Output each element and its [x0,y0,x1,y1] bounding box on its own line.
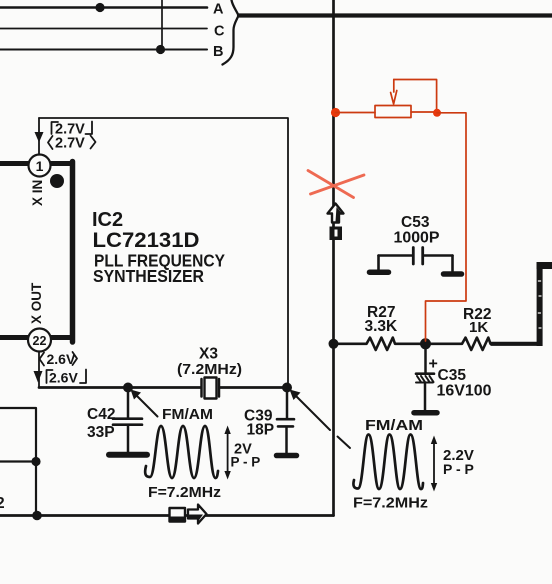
svg-text:2.7V: 2.7V [55,136,85,152]
svg-text:C53: C53 [401,214,430,231]
wiper bracket [394,80,437,113]
off-page connector right arrow [188,505,207,524]
orange node right [433,109,441,117]
capacitor C42 [127,388,130,419]
pin 22 circle [28,329,51,352]
svg-text:SYNTHESIZER: SYNTHESIZER [93,266,204,286]
p-p arrow 1 [227,432,229,473]
svg-text:1: 1 [36,158,44,174]
cable brace [223,0,239,65]
label [2.6V] [47,370,87,384]
svg-text:P - P: P - P [443,461,474,477]
svg-text:33P: 33P [87,424,115,441]
svg-text:A: A [213,2,224,18]
svg-text:B: B [213,44,223,60]
waveform 1 [145,426,218,478]
potentiometer left lead [336,112,376,114]
wiper arrow [391,80,397,105]
wire B [0,48,207,50]
crystal wire [39,386,287,389]
IC2 body edge [70,162,76,343]
pin 22 arrow [34,371,43,383]
bottom bus wire [0,514,334,517]
capacitor C53 [379,254,453,257]
svg-text:X IN: X IN [30,180,45,206]
node on wire A [95,3,104,12]
svg-text:2.6V: 2.6V [49,370,78,386]
annotation arrow to C39 node [295,395,350,448]
orange overlay [331,80,466,342]
pin 22 stub wires [0,335,72,340]
svg-text:F=7.2MHz: F=7.2MHz [148,485,221,501]
svg-text:2: 2 [0,495,5,512]
wire C [0,28,207,30]
node C42 [123,383,133,393]
svg-text:LC72131D: LC72131D [93,229,200,252]
svg-text:22: 22 [33,334,47,348]
node C39 [282,383,292,393]
capacitor C35 [424,344,427,373]
label [2.7V] [52,122,93,135]
internal dot [50,174,64,188]
wire into block [0,460,36,462]
bottom-left block edge [0,408,36,516]
thick bus wire top [239,13,552,17]
off-page connector box [330,227,343,241]
crystal X3 [202,379,220,397]
thick right-edge wire [537,262,552,269]
orange node left [331,108,340,117]
svg-text:C35: C35 [438,367,467,384]
node on wire B [156,45,165,54]
svg-text:1000P: 1000P [394,230,440,247]
p-p arrow 2 [433,442,435,486]
capacitor C39 [286,388,289,419]
resistor R27 [334,338,422,350]
potentiometer right lead [411,111,437,113]
wire vertical to node B [161,0,163,50]
annotation arrow to C42 node [136,395,158,417]
svg-text:FM/AM: FM/AM [162,407,213,423]
node R27/R22/C35 [420,338,431,349]
svg-text:X3: X3 [199,346,218,363]
svg-text:+: + [429,356,438,373]
potentiometer VR body [375,106,411,118]
svg-text:X OUT: X OUT [29,282,44,324]
pin 1 stub wires [0,161,72,166]
svg-text:16V100: 16V100 [437,383,492,400]
waveform 2 [353,435,423,490]
node bottom bus [32,511,42,521]
orange feed wire [426,113,467,341]
X IN wire loop (top and right of IC box) [39,118,288,388]
label <2.6V> [40,352,78,366]
resistor R22 [426,338,491,350]
wire R22 to right-edge [491,342,542,346]
svg-text:IC2: IC2 [92,209,123,231]
svg-text:F=7.2MHz: F=7.2MHz [353,495,428,512]
svg-text:C: C [214,24,225,40]
pin 22 wire down [38,352,40,388]
svg-text:3.3K: 3.3K [365,318,399,335]
off-page connector box bottom [170,508,186,522]
node R27 left [329,339,339,349]
svg-text:(7.2MHz): (7.2MHz) [177,361,242,378]
pin 1 wire up [38,118,40,155]
svg-text:2.6V: 2.6V [47,351,76,367]
off-page connector up arrow [328,204,344,223]
long vertical wire [332,0,335,516]
svg-text:C42: C42 [87,406,115,423]
red X cross-out [308,171,364,198]
svg-text:FM/AM: FM/AM [365,418,423,434]
svg-text:P - P: P - P [231,455,261,470]
label <2.7V> [48,136,96,150]
svg-text:18P: 18P [247,422,275,439]
pin 1 arrow [35,132,44,143]
svg-text:1K: 1K [469,319,488,336]
pin 1 circle [29,155,51,177]
node on block edge [31,457,40,466]
wire A [0,6,207,9]
